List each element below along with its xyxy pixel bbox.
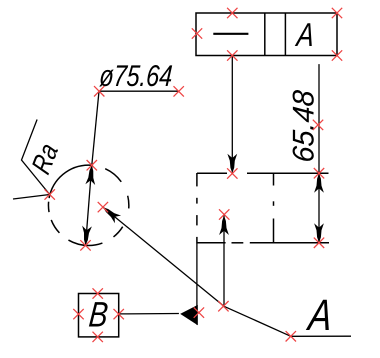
svg-text:ø75.64: ø75.64 [98,60,173,93]
svg-text:65.48: 65.48 [287,89,320,164]
svg-text:B: B [87,294,110,334]
